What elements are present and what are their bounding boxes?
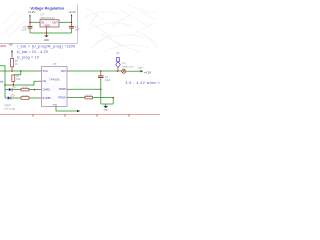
- sheet border vertical: [77, 5, 79, 44]
- svg-text:I_bat = [U_prog/R_prog] *1300: I_bat = [U_prog/R_prog] *1300: [17, 45, 75, 49]
- wire BAT row: [67, 70, 70, 72]
- svg-text:STAT?: STAT?: [4, 104, 12, 107]
- ground: [103, 104, 108, 112]
- junction: [13, 84, 15, 86]
- connector J? screw terminal: [122, 63, 135, 73]
- wire CHRG row: [5, 89, 9, 91]
- wire jog to R2: [13, 71, 20, 75]
- junction: [46, 32, 48, 34]
- junction: [100, 89, 102, 91]
- svg-text:GND: GND: [53, 104, 58, 106]
- svg-text:BAT: BAT: [61, 69, 66, 73]
- wire gnd rail bottom: [101, 103, 113, 105]
- svg-text:+5V: +5V: [9, 43, 14, 46]
- svg-text:OUT: OUT: [52, 20, 58, 24]
- resistor R2: [12, 75, 21, 85]
- LED label STAT?: [4, 104, 16, 110]
- IC U? TP4056: [42, 62, 68, 107]
- junction: [112, 97, 114, 99]
- wire PROG row: [67, 97, 70, 99]
- resistor R5: [84, 95, 93, 99]
- wire to STDBY: [29, 97, 39, 99]
- ground rail wire: [30, 32, 72, 34]
- junction: [4, 84, 6, 86]
- svg-text:1uF: 1uF: [22, 28, 27, 32]
- capacitor C3: [98, 71, 111, 104]
- wire STDBY row: [5, 97, 8, 99]
- wire +5V feed to VCC: [0, 70, 39, 72]
- power flag right arrow: [77, 110, 80, 113]
- wire rail to R2/CE: [5, 81, 39, 85]
- svg-text:STDBY: STDBY: [43, 96, 52, 100]
- svg-text:bat: bat: [0, 81, 4, 84]
- junction: [117, 70, 119, 72]
- svg-text:GND: GND: [45, 24, 51, 27]
- svg-text:+4.2V: +4.2V: [144, 70, 152, 74]
- svg-text:GND: GND: [44, 40, 49, 42]
- svg-text:3.5 - 4.2V when in: 3.5 - 4.2V when in: [126, 81, 161, 85]
- svg-text:MCP1700-33: MCP1700-33: [41, 17, 56, 20]
- svg-text:1uF: 1uF: [75, 28, 80, 32]
- svg-text:VCC: VCC: [43, 69, 49, 73]
- power +5V arrow: [11, 50, 13, 58]
- dimension line: [0, 114, 160, 117]
- junction: [29, 22, 31, 24]
- fuse F?: [116, 53, 121, 71]
- svg-text:1,2K R?: 1,2K R?: [84, 95, 93, 97]
- ground: [44, 33, 49, 42]
- regulator U? box: [40, 13, 59, 28]
- svg-text:10uF: 10uF: [105, 79, 111, 82]
- svg-text:PROG: PROG: [58, 96, 66, 100]
- global label +4.2V: [141, 70, 152, 74]
- wire in to regulator: [30, 21, 40, 23]
- LED D2: [8, 94, 15, 100]
- capacitor C2: [69, 22, 80, 33]
- wire to +4.2V label: [126, 70, 141, 72]
- resistor R3: [21, 87, 29, 91]
- power +3.3V right: [68, 10, 76, 22]
- svg-text:LED_DUAL: LED_DUAL: [4, 107, 16, 110]
- svg-text:+3.3V: +3.3V: [68, 10, 76, 14]
- svg-text:U_prog = 1V: U_prog = 1V: [17, 55, 40, 59]
- svg-text:1K: 1K: [15, 63, 18, 66]
- resistor R4: [21, 96, 29, 100]
- svg-text:10K: 10K: [16, 78, 21, 81]
- junction: [11, 70, 13, 72]
- wire: [11, 97, 21, 99]
- wire: [12, 89, 21, 91]
- wire PROG to gnd: [93, 98, 114, 104]
- svg-text:+BATT: +BATT: [137, 67, 144, 70]
- junction: [100, 70, 102, 72]
- sheet border horizontal: [0, 42, 78, 44]
- resistor R1: [11, 58, 19, 71]
- wire TEMP row: [67, 88, 70, 90]
- svg-text:+4.2V: +4.2V: [28, 10, 36, 14]
- svg-text:GND: GND: [103, 110, 108, 112]
- junction: [20, 70, 22, 72]
- wire left rail: [0, 66, 5, 98]
- svg-text:4056: 4056: [0, 44, 7, 48]
- svg-text:CE: CE: [43, 79, 47, 83]
- svg-text:Voltage Regulation: Voltage Regulation: [30, 6, 65, 10]
- LED D1: [9, 86, 16, 92]
- junction: [71, 22, 73, 24]
- svg-text:TP4056: TP4056: [49, 77, 60, 81]
- svg-text:U?: U?: [53, 62, 57, 66]
- wire to CHRG: [29, 89, 39, 91]
- svg-text:TEMP: TEMP: [59, 87, 66, 91]
- svg-text:PINHD-1X2: PINHD-1X2: [122, 66, 134, 68]
- wire out of regulator: [59, 21, 72, 23]
- faint watermark texture: [2, 4, 158, 52]
- regulator gnd pin wire: [45, 27, 47, 33]
- svg-text:1K R?: 1K R?: [22, 96, 29, 98]
- svg-text:CHRG: CHRG: [43, 88, 51, 92]
- svg-text:U_bat = 1V - 4.2V: U_bat = 1V - 4.2V: [17, 50, 49, 54]
- junction: [34, 89, 36, 91]
- svg-text:1K R?: 1K R?: [22, 87, 29, 89]
- IC gnd pin wire: [56, 106, 77, 111]
- power +4.2V left: [28, 10, 36, 22]
- capacitor C1: [22, 22, 32, 33]
- note equations: [17, 45, 75, 60]
